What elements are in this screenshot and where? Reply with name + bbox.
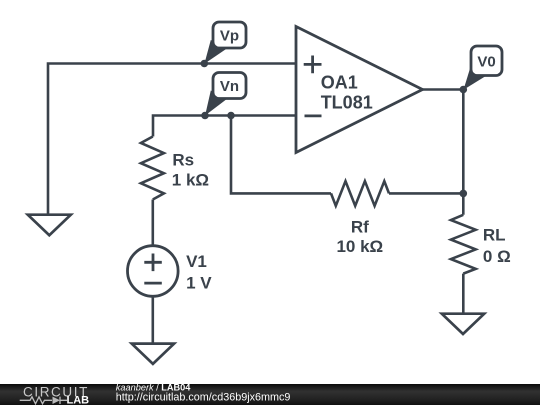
node flag V0 pointer wedge <box>464 69 486 90</box>
wire RL bottom lead to ground <box>462 274 465 314</box>
junction dot Vn-Rf <box>227 112 235 120</box>
resistor RL 0 Ohm vertical <box>451 215 476 274</box>
svg-text:Vn: Vn <box>220 78 239 95</box>
resistor Rs 1 kOhm vertical <box>141 137 164 200</box>
svg-text:V1: V1 <box>186 252 207 271</box>
wire Vn net: horizontal to op-amp - input and down into Rs top lead <box>153 116 296 137</box>
V1 minus symbol <box>144 282 162 285</box>
wire Rs bottom lead to V1 top <box>152 200 155 246</box>
resistor Rf 10 kOhm horizontal <box>331 181 389 206</box>
op-amp minus input symbol <box>305 115 322 118</box>
wire op-amp output to V0 node and down to RL top lead <box>423 90 464 215</box>
footer bar <box>0 384 540 405</box>
wire feedback from Vn node down and right to Rf left lead <box>231 116 331 194</box>
svg-text:OA1: OA1 <box>321 73 358 93</box>
V1 plus symbol <box>144 254 162 272</box>
svg-text:Rs: Rs <box>172 150 194 169</box>
junction dot V0 <box>460 86 468 94</box>
ground left <box>28 215 71 236</box>
logo diode glyph <box>53 397 61 404</box>
svg-text:Rf: Rf <box>351 218 369 237</box>
svg-text:TL081: TL081 <box>321 93 373 113</box>
svg-text:http://circuitlab.com/cd36b9jx: http://circuitlab.com/cd36b9jx6mmc9 <box>116 391 291 403</box>
svg-text:LAB: LAB <box>67 395 90 405</box>
ground bottom (below V1) <box>132 344 174 364</box>
junction dot Vn <box>201 112 209 120</box>
svg-text:Vp: Vp <box>220 28 239 45</box>
logo wire and resistor glyph <box>20 397 52 404</box>
op-amp plus input symbol <box>304 56 322 74</box>
node flag Vn pointer wedge <box>205 91 226 116</box>
svg-text:V0: V0 <box>477 54 495 71</box>
wire V1 bottom to ground <box>152 296 155 343</box>
voltage source V1 circle <box>128 246 179 297</box>
ground right (below RL) <box>442 314 484 334</box>
svg-text:1 V: 1 V <box>186 274 212 293</box>
node flag Vn box <box>213 73 246 99</box>
svg-text:0 Ω: 0 Ω <box>483 247 511 266</box>
junction dot Rf-RL <box>460 190 468 198</box>
wire Rf right lead to output node <box>389 192 463 195</box>
svg-text:RL: RL <box>483 226 506 245</box>
node flag Vp pointer wedge <box>204 40 226 64</box>
svg-text:10 kΩ: 10 kΩ <box>336 237 383 256</box>
svg-text:1 kΩ: 1 kΩ <box>172 171 209 190</box>
op-amp U1 triangle <box>296 27 423 153</box>
node flag Vp box <box>213 22 246 48</box>
wire top net Vp: left vertical + horizontal to op-amp + input <box>48 64 296 215</box>
junction dot Vp <box>201 60 209 68</box>
node flag V0 box <box>471 46 502 76</box>
